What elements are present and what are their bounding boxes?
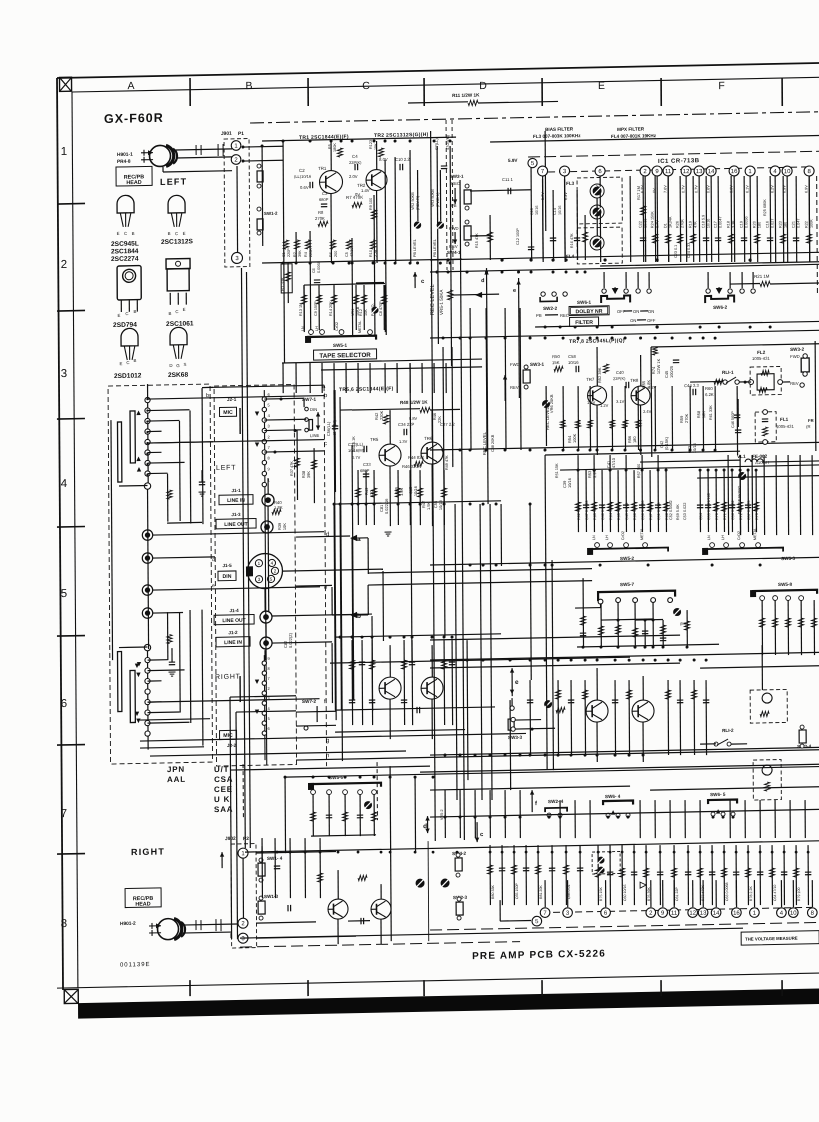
coil core bar 2 [117,422,121,482]
wire mic 4 to lever [264,418,306,421]
switch SW6-1 bracket [601,295,630,303]
svg-text:100/25: 100/25 [669,365,674,378]
boxed label LINE IN J1-2 [216,637,250,647]
rail below SW5-2 [430,557,819,565]
svg-text:R61 33K: R61 33K [709,405,713,420]
IC area bottom rail [430,252,819,260]
svg-text:0.7V: 0.7V [656,220,660,228]
row6 rails [430,663,680,668]
coil core bar 1 [130,411,135,463]
svg-text:6.2V: 6.2V [770,185,774,193]
SW5-8 array column [787,600,789,655]
array component R62 33K [577,470,579,532]
resistor R123 [378,148,383,157]
svg-text:LEFT: LEFT [216,465,236,472]
jack J1-2 symbol [260,637,272,649]
wire mic to SW7-1 [264,397,304,400]
FL2b coil [762,693,772,703]
svg-text:6: 6 [61,698,67,710]
svg-text:CrO2: CrO2 [621,531,625,540]
dashed divider 2 [376,762,378,820]
connector pin 3 J901 [231,252,242,263]
svg-text:270K: 270K [681,219,685,228]
transistor TR12 [371,899,391,919]
junction dots rail 272 [436,271,439,274]
svg-text:d: d [326,532,329,538]
svg-text:DIN: DIN [223,574,232,580]
svg-text:R16 47K: R16 47K [570,233,574,248]
mic jack J2-2 contact chain [263,655,266,760]
vertical x501 rows4-5 [500,504,502,566]
svg-text:R49 47K: R49 47K [445,455,449,470]
svg-text:H901-1: H901-1 [117,152,133,158]
component column C17 [717,176,720,262]
transistor package 2SK68 drawing [170,327,187,345]
wire g long [140,733,526,741]
jack J1-1 symbol [262,494,274,506]
IC1 pin 13 [694,166,704,176]
svg-text:R69 5.6K: R69 5.6K [676,504,680,520]
jack lever symbol [309,420,313,431]
tape selector mid bus [356,281,384,284]
mid-left rail y504 [335,501,501,504]
svg-text:P2: P2 [243,836,249,842]
svg-text:16: 16 [733,911,740,917]
svg-text:J1-2: J1-2 [228,630,238,635]
svg-text:2.0V: 2.0V [349,174,358,179]
J2-1 contact 1 [262,482,266,486]
svg-text:0.6V: 0.6V [300,185,309,190]
SW6-2 contact 1 [706,289,710,293]
tape selector top bus [304,283,385,285]
switch SW7-2 symbol [316,706,318,722]
tape selector component R14 20K [333,285,335,330]
grid row tick 3 [57,417,85,420]
grid row tick 2 [57,309,85,312]
component column R23 [782,176,785,262]
svg-text:PB LEVEL: PB LEVEL [433,239,437,257]
junction dots rail 338 [442,336,445,339]
svg-text:C: C [124,231,127,236]
svg-text:C1: C1 [282,252,286,257]
J2-2 contact 8 [262,671,266,675]
svg-text:G: G [176,363,180,368]
wire TR2 emitter [376,190,378,263]
pins up wires [544,880,546,907]
SW5-7 inner bus [601,619,653,620]
component column R22 [808,176,811,262]
array terminals SW5-2 [595,543,600,548]
junction dots rail 637 [339,636,342,639]
svg-text:RLI-2: RLI-2 [722,728,734,733]
IC1 pin 11 lower [669,908,679,918]
wire DIN down [264,589,266,611]
wire J1-2 down [265,649,267,660]
svg-text:REV: REV [449,244,458,249]
right vertical x202 [201,388,204,524]
svg-text:2SC945L: 2SC945L [111,241,139,249]
IC1 pin 1 lower [750,908,760,918]
transistor package 2SC1312S drawing [168,195,185,213]
svg-text:DIN: DIN [310,407,317,412]
svg-text:7: 7 [61,808,67,820]
IC1 pin 14 [706,166,716,176]
wire RLI-2 [700,743,716,745]
svg-text:R51 15K: R51 15K [555,463,559,478]
svg-text:10/16: 10/16 [558,205,562,215]
svg-text:LN: LN [301,326,305,331]
svg-text:LINE OUT: LINE OUT [224,522,247,528]
connector pin 3 J902 [238,933,248,943]
mirror caps row2 [349,699,355,701]
svg-text:680P: 680P [360,468,370,473]
capacitor C10 [399,164,401,170]
wire R21 left [730,282,760,285]
svg-text:180: 180 [758,222,762,228]
arrow REC to PB [454,188,456,204]
svg-text:D: D [479,80,487,92]
IC1 pin 6 lower [601,908,611,918]
C56 column [334,390,336,426]
bottom array left [489,845,491,905]
svg-text:C2: C2 [299,168,305,173]
IC1 pin 13 lower [698,908,708,918]
switch SW1-3 symbol [258,901,265,914]
IC1 pin 7 lower [540,908,550,918]
svg-text:0.7V: 0.7V [681,185,685,193]
TR8 wires [640,355,642,386]
wire C11 [470,190,531,191]
svg-text:2.2K: 2.2K [374,249,378,257]
top dashed bus [250,112,819,123]
transistor TR6 [421,442,443,464]
SW6-2 contact 4 [751,289,755,293]
junction dots rail 504 [333,503,336,506]
wire right edge runs [814,341,817,451]
center vertical bus x545 [544,131,547,231]
J2-1 contact 7 [262,450,266,454]
component column R19 [692,176,695,262]
svg-text:R78 2.2K: R78 2.2K [749,886,753,902]
svg-text:2.4V: 2.4V [643,409,652,414]
svg-text:P1: P1 [238,131,244,137]
wire mic 3 to lever [264,429,301,432]
capacitor C7 [441,165,447,167]
bus J901 to J902 line 2 [247,272,251,848]
block left vertical [283,141,284,363]
wire d to arrow a [296,536,350,537]
svg-text:TR8: TR8 [630,378,639,383]
border frame header underline [72,77,819,92]
svg-text:J1-1: J1-1 [231,488,241,493]
supply rail y263 [262,259,462,263]
svg-text:R65 12K: R65 12K [617,505,621,520]
grid row tick 4 [57,526,85,529]
wire pin2 to pin3 [236,166,239,253]
filter FL4 coil [590,236,604,250]
svg-text:220P: 220P [287,248,291,257]
SW6-2 lever arrow [717,287,722,293]
filter FL3 coil 1 [590,184,604,198]
TR7 wires [596,347,598,386]
mid columns [562,386,564,450]
pin3 drop wire [564,179,567,260]
coil resistor [167,490,172,499]
svg-text:R66 12K: R66 12K [633,505,637,520]
coil arrows [136,719,140,724]
svg-text:VR3 50KB: VR3 50KB [431,189,435,207]
wire head2 to pin3 [181,931,231,934]
svg-text:e: e [212,583,215,589]
mid rail y663 [330,657,630,663]
J2-2 contact 4 [262,711,266,715]
right columns rows2-3 [469,308,472,450]
svg-text:2SK68: 2SK68 [168,372,189,379]
tape selector component C9 150P [318,285,320,330]
svg-text:R20: R20 [753,221,757,228]
svg-text:HEAD: HEAD [126,180,141,186]
svg-text:JPN: JPN [167,765,185,774]
jack J1-4 symbol [260,611,272,623]
coil wires right [147,721,189,724]
pin5 wire lower [500,919,531,922]
svg-text:C8 470P: C8 470P [379,301,383,316]
svg-text:2SD1012: 2SD1012 [114,372,142,380]
svg-text:R57 560: R57 560 [637,464,641,478]
long vertical x545 low [545,455,547,770]
svg-text:100K: 100K [810,219,814,228]
svg-text:BIAS FILTER: BIAS FILTER [545,126,574,132]
svg-text:R79 100: R79 100 [797,887,801,901]
wire e elbow down [296,584,332,587]
capacitor SW1-3 out [287,905,289,911]
svg-text:8: 8 [61,918,67,930]
array component R66 12K [633,470,635,532]
svg-text:180K: 180K [333,143,337,152]
svg-text:0V: 0V [653,188,657,193]
wire pin3 shield [163,171,232,172]
junction dots rail 755 [444,754,447,757]
resistor R21 [760,281,770,286]
svg-text:11: 11 [671,911,678,917]
svg-text:SW2-2: SW2-2 [543,306,558,311]
svg-text:a: a [357,536,361,543]
mic switch arrows J2-1 [255,411,259,416]
capacitor row8 a [274,865,280,867]
connector pin 1 J901 [231,141,241,151]
svg-text:0.027: 0.027 [771,218,775,228]
array component C57 0.0075 [747,470,749,532]
IC1 pin 11 [663,166,673,176]
switch SW4-2 symbol [455,858,462,871]
transistor TR1 [319,170,342,193]
svg-text:1.8V: 1.8V [587,400,596,405]
SW5-7 array columns [582,578,584,647]
IC1 pin 12 [681,166,691,176]
svg-text:HEAD: HEAD [135,901,150,907]
IC1 pin 7 [538,166,548,176]
grid column tick top 2 [307,78,309,106]
svg-text:R10: R10 [369,250,373,257]
tape selector component C8 470P [383,285,385,330]
svg-text:B: B [245,80,252,92]
svg-text:FL4 007-001K 19KHz: FL4 007-001K 19KHz [611,133,657,139]
dashed LL divider 1 [445,120,448,270]
wire a from head [202,385,324,387]
wire TR1 collector [330,141,332,171]
left channel vertical bus 1 [334,390,336,720]
SW5-7 contact circles [616,598,621,603]
svg-text:14: 14 [708,169,715,175]
mid rail y640 [430,635,680,640]
wire mic2 top [264,650,266,660]
svg-text:0.022(Z): 0.022(Z) [288,632,293,648]
transistor package 2SD794 drawing [117,266,141,300]
J2-2 contact 9 [262,661,266,665]
filter FL2 dashed box [750,366,781,395]
block vertical x450 [450,146,451,366]
mic switch arrows J2-2 [255,679,259,684]
pins down wires [542,176,545,262]
grid row tick 5 [57,635,85,638]
J2-1 contact 6 [262,397,266,401]
resistor R9 [371,210,376,219]
svg-text:SW5-1: SW5-1 [333,343,348,348]
wire e from head [153,587,320,590]
wire arrow b [350,612,357,619]
svg-text:10/16: 10/16 [567,477,572,488]
svg-text:R25 680K: R25 680K [763,199,767,216]
J2-1 contact 3 [262,428,266,432]
svg-text:RIGHT: RIGHT [131,846,165,857]
wire R38 [313,448,315,503]
junction dots TR1 block [282,140,285,143]
svg-text:C61 22P: C61 22P [675,886,679,901]
grid row tick 7 [57,853,85,856]
svg-text:7.6V: 7.6V [663,185,667,193]
arrow FWD to REV [454,232,456,244]
svg-text:C63 0.0068: C63 0.0068 [725,882,729,901]
grid column tick bottom 4 [541,980,543,996]
boxed label MIC upper [219,407,236,416]
J2-2 contact 7 [262,681,266,685]
svg-text:680P: 680P [319,197,329,202]
switch SW2-2 bracket [540,297,557,302]
svg-text:C22: C22 [639,221,643,228]
svg-text:FL1: FL1 [780,417,789,422]
bottom rail y852 main [245,841,819,852]
grid column tick top 5 [660,78,662,106]
IC1 pin 6 [595,166,605,176]
svg-text:6.9V: 6.9V [805,185,809,193]
VL1 row wires [640,460,740,462]
wire TR2 collector [376,141,378,170]
svg-text:C6: C6 [312,268,316,273]
trimmer in box 2 [598,867,605,874]
svg-text:ON: ON [630,318,636,323]
wire R48 left [352,409,420,410]
svg-text:MIC: MIC [223,733,233,739]
SW6-1 contact 1 [602,289,606,293]
svg-text:8.0V: 8.0V [379,157,388,162]
svg-text:10: 10 [790,911,797,917]
wire jack column spine [267,506,270,611]
capacitor C4 [354,164,356,170]
svg-text:39K: 39K [306,471,311,479]
svg-text:1005-431: 1005-431 [752,356,770,361]
svg-text:10/16: 10/16 [707,219,711,229]
svg-text:13: 13 [700,911,707,917]
component column C18 5.9 [705,176,708,262]
capacitor C12 [528,246,534,248]
array component R64 100K [609,470,611,532]
mirror rail y637 [335,634,501,637]
svg-text:C3: C3 [322,191,328,196]
component column R18 [730,176,733,262]
component column R20 [756,176,759,262]
left-center vertical extensions [334,504,335,710]
right block left edge dashed [427,841,430,941]
SW5-6 array [312,794,314,836]
wire a elbow [357,537,368,539]
long vertical x452 [451,347,454,467]
svg-text:S: S [184,362,187,367]
rail y478 [697,476,819,478]
component C5 [346,240,351,249]
svg-text:E: E [183,307,186,312]
connector pin 2 J902 [238,918,248,928]
grid column tick top 6 [781,78,783,106]
grid column tick top 4 [541,78,543,106]
svg-text:R123: R123 [369,140,373,149]
SW5-7 foot contact [598,599,603,604]
IC1 pin 3 lower [563,908,573,918]
IC1 pin 5 lower [532,916,542,926]
svg-text:C50 0.0056: C50 0.0056 [641,500,645,520]
junction dots left box [146,398,148,400]
svg-text:C55 0.0091/100: C55 0.0091/100 [707,493,711,520]
svg-text:J901: J901 [221,131,232,137]
switch SW2-3 symbol [456,902,463,915]
wire R11 right [478,101,558,103]
svg-text:R19: R19 [689,221,693,228]
svg-text:C: C [125,311,128,316]
junction dot [656,325,659,328]
J2-1 contact 5 [262,407,266,411]
svg-text:d: d [423,823,427,830]
svg-text:FL3 007-003K 100KHz: FL3 007-003K 100KHz [533,133,581,139]
SW6-4 contact 2 [616,813,620,817]
R15 column [489,215,491,260]
head assembly dashed enclosure [108,384,212,764]
relay RLI-1 contacts [723,380,727,384]
svg-text:MIC: MIC [223,410,233,416]
wire R17 column [629,176,632,262]
svg-text:0.0056: 0.0056 [745,216,749,228]
svg-text:R37 47K: R37 47K [290,461,294,476]
svg-text:C16: C16 [766,221,770,228]
SW6-4 lever [611,810,615,815]
wire sw1 col [261,846,263,862]
grid row tick 1 [57,202,85,205]
svg-text:C48 0.01: C48 0.01 [601,505,605,520]
R16 column [584,215,586,260]
connector J902/P2 dashed outline [231,844,257,948]
svg-text:(LL)10/16: (LL)10/16 [294,174,312,179]
svg-text:VR1: VR1 [351,309,355,316]
svg-text:C40: C40 [616,370,624,375]
SW6-1 contact 3 [636,289,640,293]
